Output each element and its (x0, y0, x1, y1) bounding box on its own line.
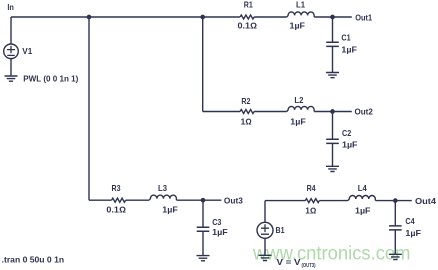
wire L3 to junction (177, 199, 204, 201)
junction node at branch3 takeoff (87, 15, 92, 20)
svg-text:R3: R3 (112, 184, 121, 193)
svg-text:C2: C2 (342, 129, 352, 138)
junction node Out3 (201, 198, 206, 203)
svg-text:Out2: Out2 (355, 108, 374, 117)
svg-text:C4: C4 (405, 217, 415, 226)
wire Out4 stub (395, 200, 412, 202)
wire R1 to L1 (254, 16, 287, 18)
resistor R2 (240, 110, 254, 114)
svg-text:In: In (7, 3, 13, 12)
wire C2 top lead (332, 112, 334, 140)
behavioral source B1 (257, 222, 273, 238)
svg-text:V = V: V = V (277, 258, 302, 267)
ground C1 (326, 73, 339, 78)
ground B1 (259, 255, 272, 260)
svg-text:1µF: 1µF (355, 207, 371, 216)
wire C1 bottom lead (332, 46, 334, 72)
svg-text:1µF: 1µF (162, 206, 178, 215)
svg-text:1µF: 1µF (341, 45, 357, 54)
svg-text:L1: L1 (296, 1, 305, 10)
wire branch2 vertical (202, 17, 204, 112)
wire C4 bottom lead (394, 230, 396, 254)
capacitor C4 (389, 226, 402, 230)
resistor R3 (112, 198, 126, 202)
wire R2 to L2 (254, 111, 287, 113)
svg-text:C3: C3 (212, 218, 222, 227)
wire L4 to junction (375, 200, 395, 202)
svg-text:B1: B1 (276, 226, 285, 235)
junction node Out1 (330, 15, 335, 20)
resistor R4 (305, 199, 319, 203)
svg-text:1Ω: 1Ω (241, 117, 252, 126)
svg-text:Out3: Out3 (224, 197, 243, 206)
wire branch2 to R2 (203, 111, 240, 113)
svg-text:PWL (0 0 1n 1): PWL (0 0 1n 1) (23, 74, 78, 83)
inductor L4 (348, 196, 375, 201)
svg-text:1Ω: 1Ω (305, 207, 316, 216)
svg-text:0.1Ω: 0.1Ω (238, 22, 258, 31)
svg-text:1µF: 1µF (212, 228, 228, 237)
wire top rail In (11, 16, 240, 18)
wire C1 top lead (332, 17, 334, 42)
inductor L3 (149, 195, 176, 200)
svg-text:L3: L3 (158, 184, 167, 193)
svg-text:L2: L2 (294, 96, 303, 105)
svg-text:0.1Ω: 0.1Ω (106, 206, 126, 215)
svg-text:R1: R1 (244, 1, 253, 10)
wire B1 bottom lead (264, 238, 266, 255)
wire R3 to L3 (126, 199, 150, 201)
wire C3 bottom lead (202, 231, 204, 255)
voltage source V1 (4, 44, 19, 59)
junction node at branch2 takeoff (200, 15, 205, 20)
inductor L1 (287, 12, 314, 17)
wire C4 top lead (394, 201, 396, 226)
wire Out1 stub (333, 16, 352, 18)
wire L1 to junction (314, 16, 332, 18)
svg-text:1µF: 1µF (290, 22, 306, 31)
wire R4 to L4 (319, 200, 348, 202)
svg-text:V1: V1 (22, 47, 32, 56)
value label B1 expression (277, 258, 316, 269)
capacitor C2 (326, 139, 339, 143)
svg-text:Out1: Out1 (355, 13, 372, 22)
svg-text:C1: C1 (341, 34, 351, 43)
wire L2 to junction (314, 111, 332, 113)
wire C3 top lead (202, 200, 204, 227)
wire branch3 to R3 (89, 199, 112, 201)
svg-text:1µF: 1µF (405, 229, 421, 238)
ground C4 (389, 254, 402, 259)
ground C2 (326, 166, 339, 171)
junction node Out4 (393, 198, 398, 203)
capacitor C3 (197, 227, 210, 231)
svg-text:R4: R4 (307, 184, 316, 193)
wire Out2 stub (333, 111, 352, 113)
wire B1 to R4 (265, 200, 305, 202)
wire branch3 vertical (88, 17, 90, 200)
resistor R1 (240, 15, 254, 19)
svg-text:(OUT3): (OUT3) (302, 263, 316, 269)
svg-text:Out4: Out4 (415, 197, 436, 206)
ground C3 (197, 256, 210, 261)
ground V1 (5, 76, 18, 81)
wire V1 bottom lead (10, 58, 12, 76)
svg-text:R2: R2 (241, 97, 250, 106)
wire C2 bottom lead (332, 143, 334, 166)
svg-text:L4: L4 (358, 184, 367, 193)
svg-text:1µF: 1µF (342, 141, 358, 150)
svg-text:1µF: 1µF (290, 117, 306, 126)
wire V1 top lead (10, 17, 12, 44)
wire Out3 stub (203, 199, 221, 201)
inductor L2 (287, 106, 314, 111)
junction node Out2 (330, 109, 335, 114)
svg-text:.tran 0 50u 0 1n: .tran 0 50u 0 1n (2, 255, 65, 265)
wire B1 top lead (264, 201, 266, 223)
capacitor C1 (326, 42, 339, 46)
